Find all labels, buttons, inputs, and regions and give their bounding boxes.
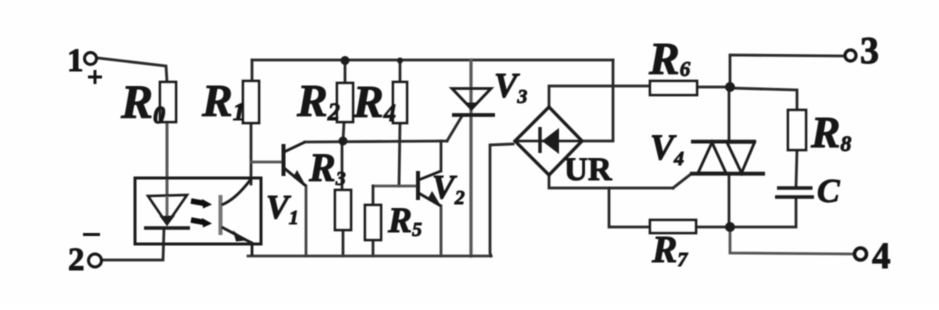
svg-text:C: C [817,173,840,210]
svg-text:UR: UR [564,152,613,188]
svg-text:2: 2 [68,242,85,278]
svg-text:1: 1 [67,43,84,79]
svg-text:4: 4 [872,236,891,277]
svg-text:3: 3 [860,30,879,72]
